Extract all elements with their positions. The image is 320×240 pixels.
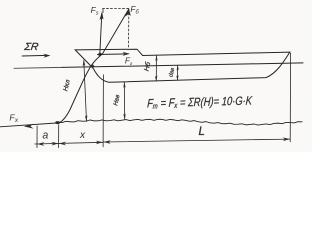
force F_r horizontal arrow: [98, 53, 129, 56]
node stem-waterline crossing blob: [91, 64, 95, 68]
dimension line L: [103, 139, 290, 142]
dashed construction line vertical: [128, 9, 130, 48]
arrow x right: [96, 141, 103, 145]
arrow L left: [104, 140, 111, 144]
force F_x arrow (pointing left): [0, 123, 58, 127]
node O: contact point blob: [55, 121, 60, 124]
dimension H_vv vertical line: [123, 82, 125, 120]
dimension H_kl vertical line: [84, 61, 87, 122]
wire: waterline main: [62, 63, 303, 68]
extension line x-right (long, from bow curve): [102, 75, 104, 147]
dashed construction line horizontal: [103, 7, 129, 9]
paper noise: [0, 0, 312, 152]
dashed corner tick: [102, 9, 104, 13]
wire: ice ground line (wavy): [59, 119, 303, 125]
arrow L right: [283, 137, 290, 141]
node origin blob: [98, 53, 101, 56]
force line F diagonal (curved at bottom): [60, 9, 129, 123]
extension line a-right / contact: [58, 125, 60, 148]
force Sigma-R arrow: [22, 54, 47, 57]
dimension line a+x: [35, 142, 103, 144]
ship hull outline: [75, 49, 290, 82]
wire: waterline faint left segment: [14, 66, 62, 69]
arrow a left: [37, 142, 44, 146]
extension line a-left: [36, 126, 38, 148]
formula: [147, 94, 253, 111]
extension line L-right / stern: [289, 53, 291, 142]
dimension H_b vertical line (deck to keel): [155, 56, 157, 82]
dimension d vertical line (waterline to keel): [177, 65, 179, 80]
arrow x left: [59, 142, 66, 146]
arrow a right: [51, 142, 58, 146]
arrowhead of diagonal force: [124, 9, 131, 17]
vector F_s vertical arrow: [100, 14, 102, 55]
